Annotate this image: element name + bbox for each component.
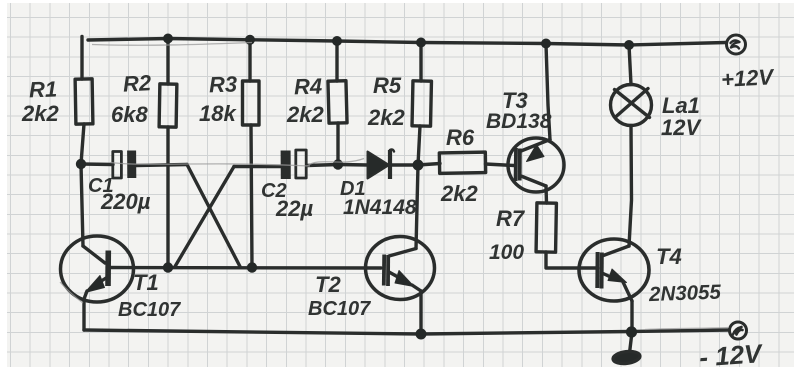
junction rail R2 (163, 34, 173, 44)
junction rail R5 (416, 38, 426, 48)
svg-text:12V: 12V (661, 115, 702, 140)
svg-text:- 12V: - 12V (698, 338, 765, 372)
wire T2 collector to D1 node (416, 165, 418, 249)
svg-text:6k8: 6k8 (111, 102, 148, 127)
svg-text:22µ: 22µ (275, 196, 313, 221)
junction rail lamp (624, 40, 634, 50)
svg-text:R3: R3 (209, 71, 238, 97)
diode D1 (338, 150, 418, 180)
resistor R4 (328, 81, 347, 123)
wire cross-couple C1 side to T2 base node (187, 165, 240, 267)
wire node to C1 (81, 162, 113, 166)
wire node to T1 collector (81, 164, 83, 246)
junction base line R2 (163, 262, 173, 272)
svg-text:T1: T1 (133, 270, 159, 295)
wire T4 collector to lamp (629, 126, 632, 247)
resistor R2 (159, 84, 177, 127)
wire R4 top branch (335, 41, 338, 81)
capacitor C2 (286, 150, 307, 179)
ground (612, 332, 640, 365)
svg-text:1N4148: 1N4148 (343, 196, 417, 219)
wire R6 to T3 base (486, 164, 515, 166)
svg-text:T2: T2 (315, 272, 341, 297)
wire +12V top rail (88, 39, 726, 46)
wire T1 emitter to bottom rail (84, 291, 87, 330)
wire T4 emitter to rail (630, 301, 633, 332)
wire C1 to crossing (136, 165, 187, 166)
svg-text:2k2: 2k2 (440, 181, 478, 206)
junction node R1-C1 (76, 159, 86, 169)
svg-text:R1: R1 (29, 76, 58, 102)
svg-text:+12V: +12V (720, 64, 776, 92)
terminal +12V (727, 35, 746, 54)
junction rail R3 (245, 35, 255, 45)
wire R5 top branch (419, 43, 422, 82)
svg-text:BC107: BC107 (308, 298, 371, 320)
svg-text:T4: T4 (656, 244, 682, 269)
svg-text:2k2: 2k2 (286, 102, 324, 127)
junction bottom rail T4 (626, 326, 637, 337)
wire D1 node to R6 (418, 164, 440, 166)
transistor T1 (61, 236, 134, 302)
wire T2 emitter to bottom rail (419, 291, 422, 334)
wire R2 bottom to base line (166, 127, 169, 268)
svg-text:BD138: BD138 (486, 110, 552, 133)
svg-text:R4: R4 (294, 73, 323, 99)
svg-text:18k: 18k (199, 101, 237, 126)
junction rail T3 (541, 39, 551, 49)
svg-text:2N3055: 2N3055 (648, 281, 722, 307)
svg-text:R5: R5 (373, 73, 402, 98)
resistor R1 (75, 79, 93, 124)
wire R1 top branch (80, 37, 83, 80)
wire R4 bottom to node (336, 123, 339, 165)
wire R3 top branch (248, 40, 251, 81)
resistor R6 (439, 152, 485, 173)
svg-text:100: 100 (489, 241, 524, 264)
junction node R4-C2-D1 (333, 159, 343, 169)
transistor T4 (579, 239, 649, 301)
wire T3 emitter to rail (546, 44, 550, 140)
svg-text:R2: R2 (122, 70, 152, 96)
junction base line R3 (247, 262, 257, 272)
svg-text:2k2: 2k2 (21, 101, 59, 126)
resistor R7 (536, 203, 556, 252)
transistor T3 (508, 138, 564, 192)
junction rail R4 (332, 36, 342, 46)
wire R7 to T4 base (546, 252, 598, 268)
wire R3 bottom to base line (251, 125, 252, 268)
svg-text:BC107: BC107 (118, 299, 181, 321)
wire T1 base line to T2 base (108, 266, 381, 270)
wire T3 collector to R7 (544, 186, 548, 203)
wire crossing to C2 (234, 165, 281, 168)
svg-text:220µ: 220µ (100, 189, 151, 214)
wire R1 bottom to node (81, 124, 84, 164)
wire cross-couple C2 side to T1 base node (175, 167, 234, 267)
svg-text:R7: R7 (496, 206, 526, 231)
terminal -12V (730, 322, 747, 339)
resistor R3 (243, 81, 260, 125)
wire rail to lamp (629, 45, 631, 85)
wire -12V bottom rail (84, 330, 730, 334)
wire C2 to D1 node (307, 165, 338, 166)
transistor T2 (366, 237, 435, 300)
svg-text:2k2: 2k2 (367, 105, 405, 130)
junction node R5-D1-R6 (413, 160, 424, 171)
resistor R5 (412, 81, 431, 126)
capacitor C1 (113, 151, 132, 179)
junction bottom rail T2 (416, 329, 427, 340)
wire R2 top branch (166, 39, 169, 85)
svg-text:R6: R6 (446, 125, 475, 150)
lamp La1 (611, 85, 652, 126)
wire R5 bottom to node (418, 126, 420, 165)
